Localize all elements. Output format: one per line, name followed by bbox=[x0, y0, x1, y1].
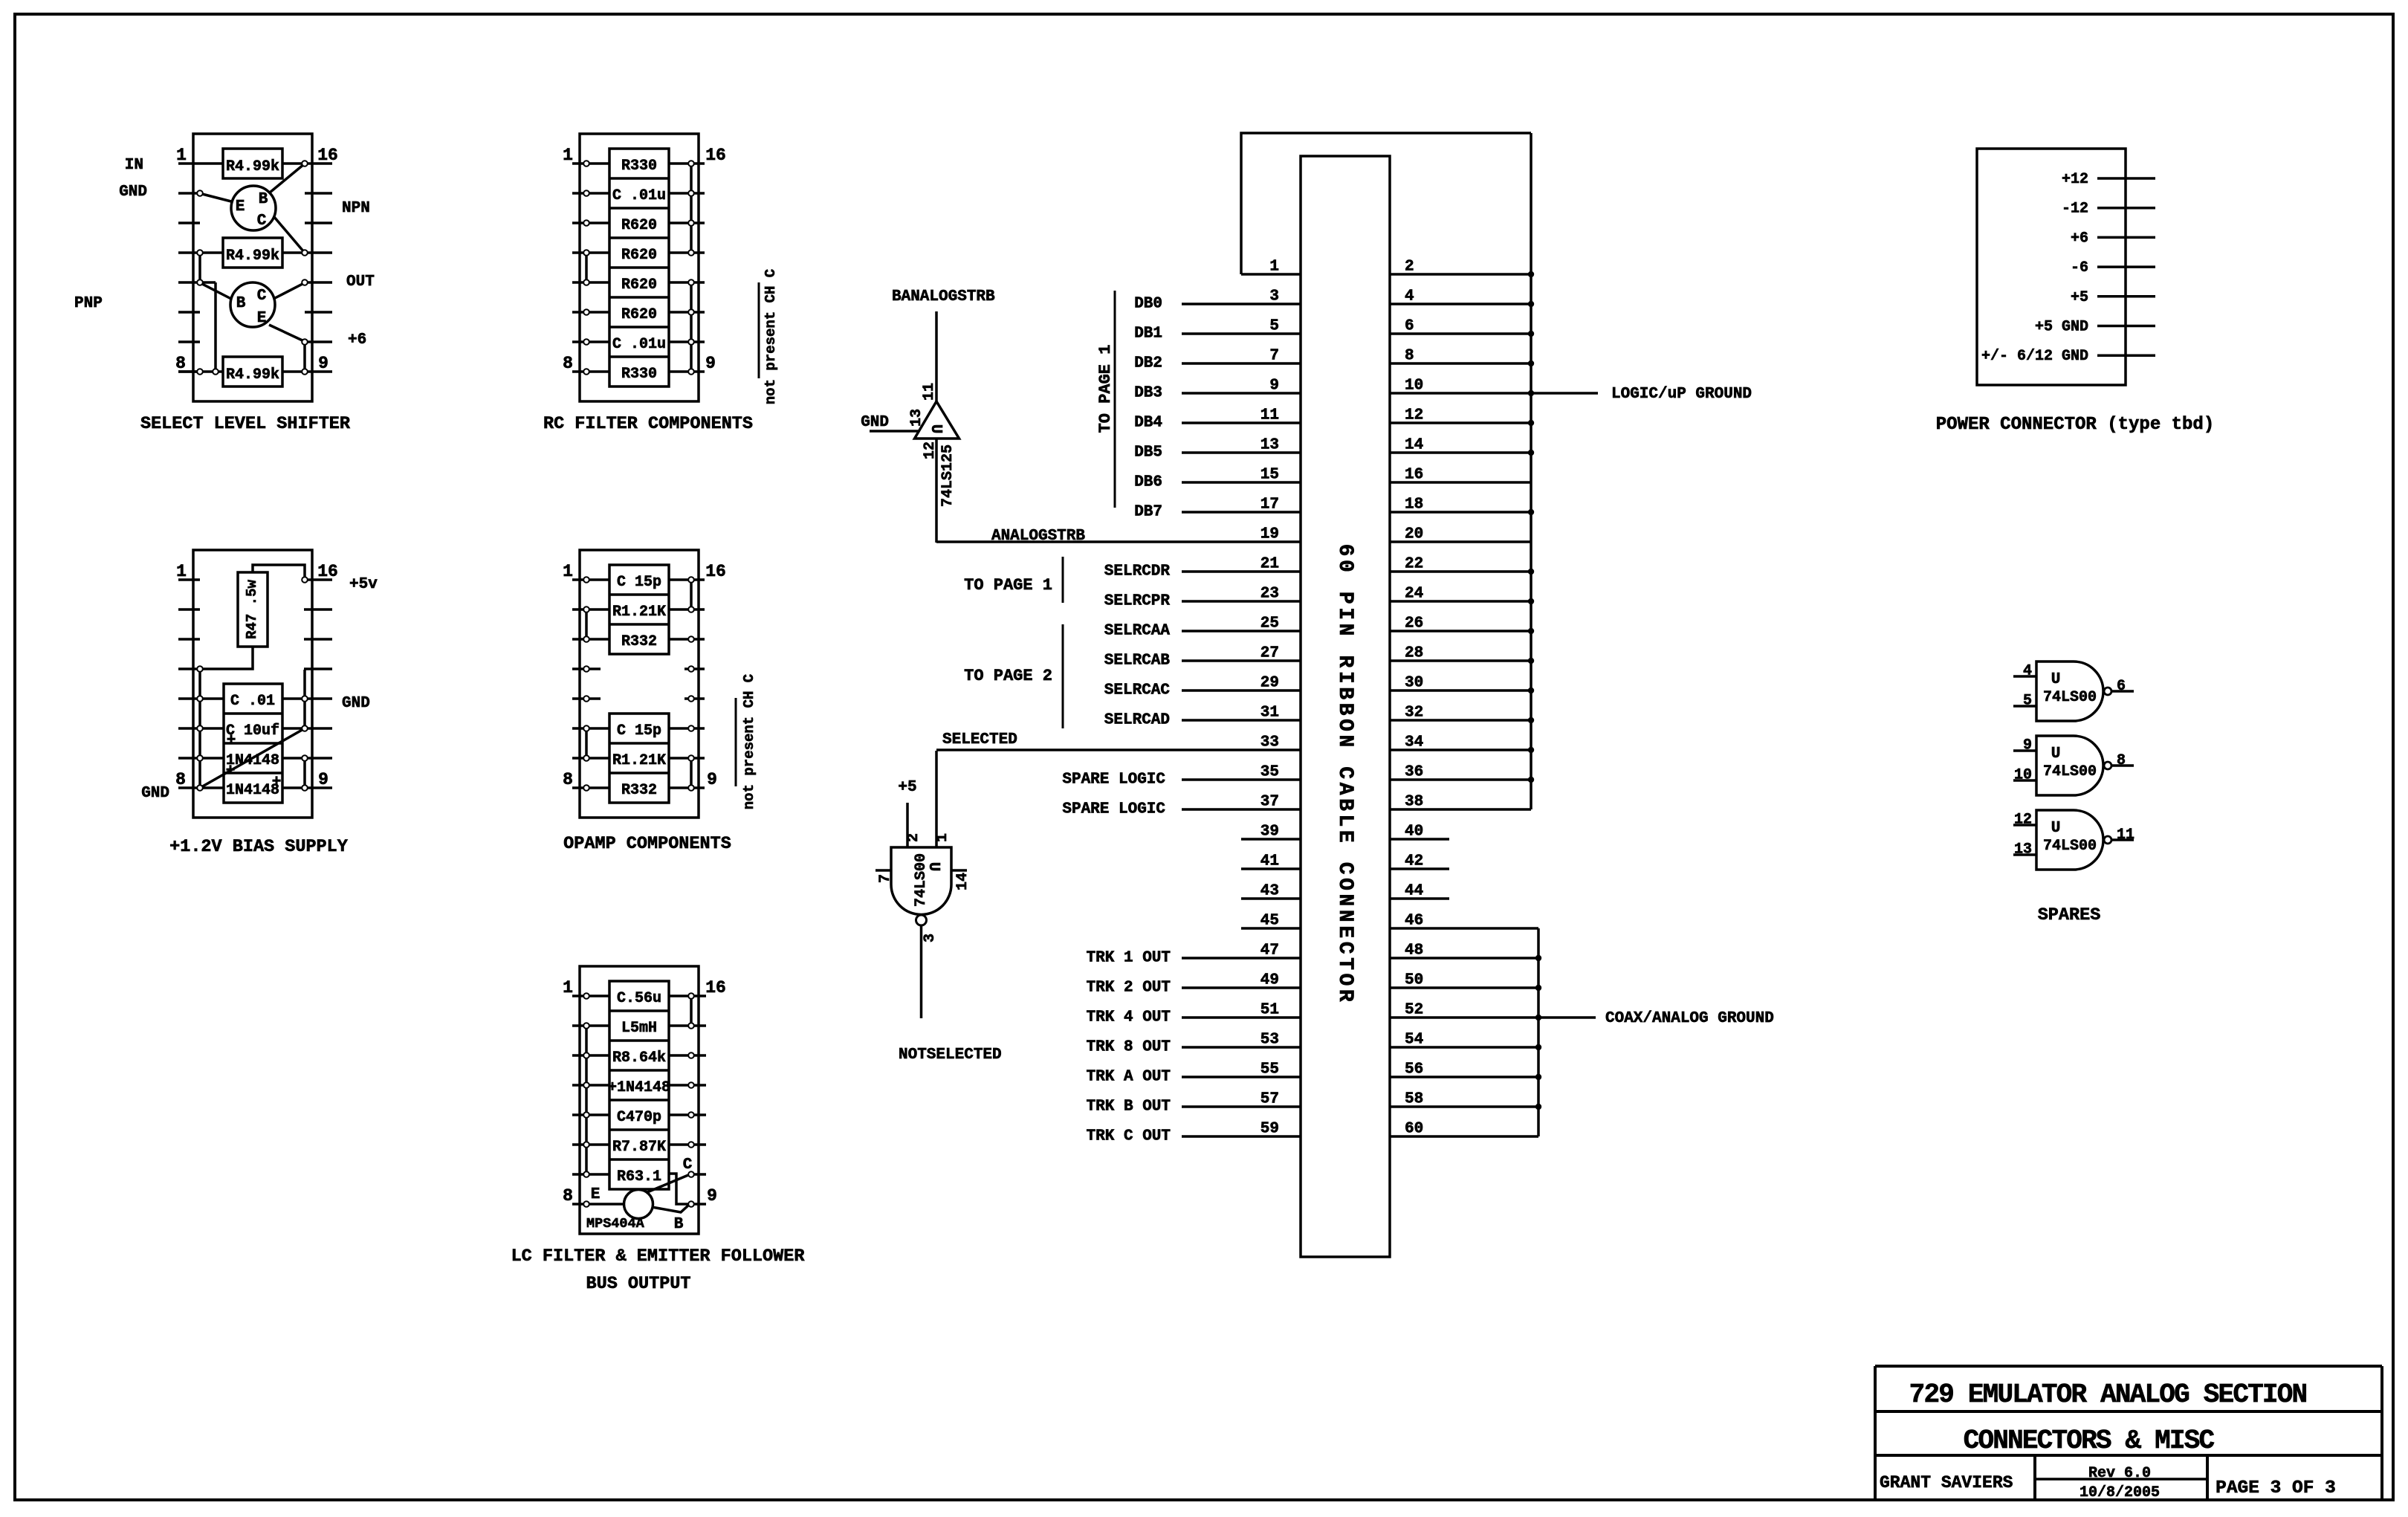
svg-text:U: U bbox=[2051, 745, 2061, 763]
svg-text:NPN: NPN bbox=[342, 200, 370, 217]
net DB3 row pin 9 bbox=[1134, 385, 1301, 402]
wire pin 41 row bbox=[1241, 867, 1301, 870]
svg-text:+: + bbox=[227, 732, 236, 749]
wire pin 24 row bbox=[1390, 600, 1531, 603]
svg-text:TO PAGE 1: TO PAGE 1 bbox=[1096, 345, 1115, 433]
svg-text:42: 42 bbox=[1405, 853, 1423, 870]
node terminals opamp right bbox=[688, 577, 694, 791]
pin 12 input bbox=[2013, 812, 2036, 829]
svg-text:B: B bbox=[674, 1216, 684, 1233]
svg-text:COAX/ANALOG GROUND: COAX/ANALOG GROUND bbox=[1605, 1010, 1774, 1027]
wire coax ground branch bbox=[1538, 1016, 1596, 1019]
svg-text:GND: GND bbox=[861, 414, 889, 431]
svg-text:R8.64k: R8.64k bbox=[612, 1049, 666, 1067]
svg-text:57: 57 bbox=[1260, 1091, 1279, 1108]
svg-text:51: 51 bbox=[1260, 1002, 1279, 1019]
note bar not-present rcfilter bbox=[758, 282, 760, 378]
svg-text:8: 8 bbox=[2117, 752, 2126, 769]
svg-text:R332: R332 bbox=[621, 633, 657, 650]
svg-text:L5mH: L5mH bbox=[621, 1020, 657, 1037]
svg-text:24: 24 bbox=[1405, 586, 1423, 603]
svg-text:1: 1 bbox=[563, 562, 573, 581]
svg-text:R330: R330 bbox=[621, 366, 657, 383]
wire right link rows1-2 bbox=[690, 580, 693, 609]
svg-text:+1.2V BIAS SUPPLY: +1.2V BIAS SUPPLY bbox=[169, 837, 349, 857]
svg-text:C .01u: C .01u bbox=[612, 187, 666, 204]
svg-text:18: 18 bbox=[1405, 496, 1423, 514]
wire right pin rows U-opamp bbox=[669, 580, 705, 788]
wire pin 6 row bbox=[1390, 332, 1531, 335]
svg-text:GND: GND bbox=[119, 184, 147, 201]
net +/- 6/12 GND pin bbox=[1981, 348, 2155, 365]
svg-text:1: 1 bbox=[563, 146, 573, 165]
svg-text:1: 1 bbox=[1269, 259, 1279, 276]
wire pin 44 stub bbox=[1390, 897, 1449, 900]
svg-text:59: 59 bbox=[1260, 1121, 1279, 1138]
svg-text:SELRCPR: SELRCPR bbox=[1104, 593, 1171, 610]
svg-text:CONNECTORS & MISC: CONNECTORS & MISC bbox=[1964, 1426, 2215, 1456]
wire R2 to pin13 bbox=[282, 251, 305, 254]
wire GND to Q-NPN emitter bbox=[202, 194, 231, 201]
svg-text:R620: R620 bbox=[621, 306, 657, 323]
wire corner down to row8 bbox=[214, 282, 217, 372]
wire node row4-row5 link bbox=[198, 253, 201, 282]
svg-text:54: 54 bbox=[1405, 1032, 1423, 1049]
svg-text:DB1: DB1 bbox=[1134, 326, 1162, 343]
bracket TO PAGE 2 bbox=[964, 624, 1063, 728]
svg-text:4: 4 bbox=[1405, 288, 1414, 305]
net LOGIC/uP GROUND bus bbox=[1530, 133, 1532, 809]
svg-text:BANALOGSTRB: BANALOGSTRB bbox=[892, 288, 995, 305]
svg-text:58: 58 bbox=[1405, 1091, 1423, 1108]
wire GND to U125 pin13 bbox=[870, 430, 919, 433]
resistor R4.99k (middle) bbox=[223, 238, 282, 268]
svg-text:TRK 1 OUT: TRK 1 OUT bbox=[1087, 950, 1171, 967]
wire pin 52 row bbox=[1390, 1016, 1538, 1019]
svg-text:U: U bbox=[927, 424, 944, 434]
svg-text:13: 13 bbox=[2014, 841, 2032, 858]
svg-text:-6: -6 bbox=[2071, 259, 2088, 276]
svg-text:1: 1 bbox=[176, 562, 187, 581]
svg-text:49: 49 bbox=[1260, 972, 1279, 989]
nand gate U-spare-c bbox=[2036, 810, 2103, 870]
wire pin 10 row bbox=[1390, 392, 1531, 395]
wire pin 20 row bbox=[1390, 540, 1531, 543]
pin 11 output bbox=[2111, 827, 2134, 844]
svg-text:R620: R620 bbox=[621, 217, 657, 234]
svg-text:39: 39 bbox=[1260, 824, 1279, 841]
svg-text:11: 11 bbox=[2117, 827, 2134, 844]
svg-text:14: 14 bbox=[954, 873, 971, 890]
IC package U-select outline bbox=[193, 134, 312, 401]
wire Q-NPN collector to pin13 bbox=[274, 217, 304, 252]
wire right link rows1-4 bbox=[690, 164, 693, 253]
svg-text:R620: R620 bbox=[621, 247, 657, 264]
inverter bubble U-spare-a bbox=[2104, 688, 2111, 695]
svg-text:13: 13 bbox=[1260, 437, 1279, 454]
nand gate U-spare-a bbox=[2036, 662, 2103, 721]
wire left pin stubs U-bias bbox=[178, 580, 200, 788]
svg-text:7: 7 bbox=[877, 874, 894, 883]
svg-text:4: 4 bbox=[2023, 663, 2032, 680]
junction dots logic ground bus bbox=[1528, 271, 1534, 783]
svg-text:R1.21K: R1.21K bbox=[612, 752, 666, 769]
wire row8 to R3 bbox=[178, 370, 223, 373]
svg-text:E: E bbox=[591, 1186, 601, 1203]
wire R47 bottom to row4 bbox=[200, 647, 253, 669]
svg-text:GND: GND bbox=[342, 695, 370, 712]
wire pin 28 row bbox=[1390, 659, 1531, 662]
svg-text:29: 29 bbox=[1260, 675, 1279, 692]
svg-text:DB2: DB2 bbox=[1134, 355, 1162, 372]
svg-text:+12: +12 bbox=[2062, 171, 2088, 188]
wire pin5 to Q-PNP base bbox=[202, 284, 231, 299]
svg-text:38: 38 bbox=[1405, 794, 1423, 811]
wire right link rows1-2 bbox=[690, 996, 693, 1026]
svg-text:19: 19 bbox=[1260, 526, 1279, 543]
svg-text:8: 8 bbox=[563, 354, 573, 373]
svg-text:74LS00: 74LS00 bbox=[2043, 763, 2097, 780]
wire pin 34 row bbox=[1390, 748, 1531, 751]
svg-text:12: 12 bbox=[2014, 812, 2032, 829]
wire left pin rows U-lcfilter bbox=[572, 996, 624, 1204]
svg-text:DB3: DB3 bbox=[1134, 385, 1162, 402]
wire left link rows2-7 bbox=[585, 1026, 588, 1174]
net SELRCAC row pin 29 bbox=[1104, 682, 1301, 699]
svg-text:7: 7 bbox=[1269, 348, 1279, 365]
net -12 pin bbox=[2062, 201, 2155, 218]
net DB0 row pin 3 bbox=[1134, 296, 1301, 313]
wire left pin rows U-opamp bbox=[572, 580, 609, 788]
svg-text:+5: +5 bbox=[2071, 289, 2088, 306]
svg-text:OPAMP COMPONENTS: OPAMP COMPONENTS bbox=[563, 834, 731, 854]
wire pin 36 row bbox=[1390, 778, 1531, 781]
svg-text:+6: +6 bbox=[348, 331, 366, 349]
wire stack rows right bbox=[282, 699, 305, 788]
svg-text:41: 41 bbox=[1260, 853, 1279, 870]
svg-text:C .01: C .01 bbox=[230, 693, 275, 710]
svg-text:16: 16 bbox=[705, 978, 726, 997]
wire pin 32 row bbox=[1390, 719, 1531, 722]
svg-text:10: 10 bbox=[2014, 767, 2032, 784]
wire SELECTED to U00 pin1 bbox=[935, 751, 938, 847]
svg-text:SPARE LOGIC: SPARE LOGIC bbox=[1062, 801, 1165, 818]
inverter bubble U00 bbox=[916, 915, 927, 925]
wire pin 42 stub bbox=[1390, 867, 1449, 870]
wire Q base diagonal bbox=[652, 1205, 689, 1212]
svg-text:PNP: PNP bbox=[74, 295, 103, 312]
wire pin 1 row bbox=[1241, 273, 1301, 276]
net SELRCDR row pin 21 bbox=[1104, 563, 1301, 580]
svg-text:+5 GND: +5 GND bbox=[2035, 319, 2088, 336]
wire Q collector diagonal bbox=[647, 1175, 688, 1192]
svg-text:SELRCAB: SELRCAB bbox=[1104, 653, 1171, 670]
capacitor/diode stack box bbox=[224, 684, 282, 803]
wire U00 output down bbox=[920, 925, 923, 1018]
pin 7 stub bbox=[876, 870, 894, 883]
svg-text:C: C bbox=[257, 213, 267, 230]
svg-text:R63.1: R63.1 bbox=[617, 1168, 661, 1186]
svg-text:56: 56 bbox=[1405, 1061, 1423, 1078]
wire pin 45 row bbox=[1241, 927, 1301, 930]
net +5 pin bbox=[2071, 289, 2155, 306]
net TRK 4 OUT row pin 51 bbox=[1087, 1009, 1301, 1026]
node terminals U-bias right bbox=[302, 577, 308, 791]
svg-text:E: E bbox=[236, 198, 245, 216]
connector J1 spine bbox=[1301, 156, 1390, 1257]
svg-text:10/8/2005: 10/8/2005 bbox=[2080, 1484, 2160, 1501]
svg-text:5: 5 bbox=[2023, 693, 2032, 710]
svg-text:9: 9 bbox=[707, 1186, 717, 1206]
wire right pin stubs U-bias bbox=[304, 580, 332, 788]
net COAX/ANALOG GROUND bus bbox=[1537, 928, 1540, 1136]
pin 10 input bbox=[2013, 767, 2036, 784]
svg-text:16: 16 bbox=[1405, 467, 1423, 484]
svg-text:5: 5 bbox=[1269, 318, 1279, 335]
svg-text:23: 23 bbox=[1260, 586, 1279, 603]
svg-text:not present CH C: not present CH C bbox=[763, 269, 779, 404]
inverter bubble U-spare-c bbox=[2104, 836, 2111, 844]
svg-text:C470p: C470p bbox=[617, 1109, 661, 1126]
svg-text:PAGE 3 OF 3: PAGE 3 OF 3 bbox=[2216, 1478, 2336, 1498]
wire left bus row4-row8 bbox=[198, 669, 201, 788]
wire pin 48 row bbox=[1390, 957, 1538, 960]
svg-text:SELRCAC: SELRCAC bbox=[1104, 682, 1171, 699]
wire right pin rows U-rcfilter bbox=[669, 164, 705, 372]
svg-text:60: 60 bbox=[1405, 1121, 1423, 1138]
svg-text:47: 47 bbox=[1260, 942, 1279, 960]
resistor R4.99k (bottom) bbox=[223, 357, 282, 386]
wire pin 26 row bbox=[1390, 630, 1531, 633]
svg-text:SPARE LOGIC: SPARE LOGIC bbox=[1062, 772, 1165, 789]
svg-text:34: 34 bbox=[1405, 734, 1423, 751]
svg-text:16: 16 bbox=[705, 146, 726, 165]
svg-text:C: C bbox=[257, 288, 267, 305]
wire +6 pin down to pin9 bbox=[303, 342, 306, 372]
net SELECTED row bbox=[936, 731, 1301, 750]
wire pin 4 row bbox=[1390, 303, 1531, 305]
net TRK 8 OUT row pin 53 bbox=[1087, 1039, 1301, 1056]
svg-text:17: 17 bbox=[1260, 496, 1279, 514]
svg-text:ANALOGSTRB: ANALOGSTRB bbox=[991, 528, 1085, 545]
junction dots coax ground bus bbox=[1535, 955, 1541, 1110]
wire pin 40 stub bbox=[1390, 838, 1449, 841]
svg-text:SELECTED: SELECTED bbox=[942, 731, 1017, 748]
svg-text:R7.87K: R7.87K bbox=[612, 1139, 666, 1156]
svg-text:14: 14 bbox=[1405, 437, 1423, 454]
svg-text:SELRCDR: SELRCDR bbox=[1104, 563, 1171, 580]
svg-text:+6: +6 bbox=[2071, 230, 2088, 247]
inverter bubble U-spare-b bbox=[2104, 762, 2111, 769]
net DB7 row pin 17 bbox=[1134, 504, 1301, 521]
wire pin 22 row bbox=[1390, 570, 1531, 573]
svg-text:8: 8 bbox=[563, 770, 573, 789]
nand gate U-spare-b bbox=[2036, 736, 2103, 795]
net TRK 2 OUT row pin 49 bbox=[1087, 980, 1301, 997]
svg-text:E: E bbox=[257, 310, 267, 327]
connector J1 top outline bbox=[1241, 133, 1531, 274]
svg-text:SELECT LEVEL SHIFTER: SELECT LEVEL SHIFTER bbox=[140, 414, 351, 434]
svg-text:LC FILTER & EMITTER FOLLOWER: LC FILTER & EMITTER FOLLOWER bbox=[511, 1246, 806, 1267]
svg-text:TO PAGE 2: TO PAGE 2 bbox=[964, 667, 1052, 685]
node terminals rcfilter left bbox=[583, 161, 589, 375]
svg-text:74LS00: 74LS00 bbox=[2043, 838, 2097, 855]
svg-text:20: 20 bbox=[1405, 526, 1423, 543]
net +5 GND pin bbox=[2035, 319, 2155, 336]
wire R63.1 to pin9 path bbox=[669, 1174, 689, 1204]
svg-text:9: 9 bbox=[705, 354, 716, 373]
wire row1 to R1 bbox=[200, 162, 223, 165]
svg-text:+1N4148: +1N4148 bbox=[608, 1079, 670, 1096]
svg-text:21: 21 bbox=[1260, 556, 1279, 573]
svg-text:TO PAGE 1: TO PAGE 1 bbox=[964, 576, 1052, 595]
net SPARE LOGIC row pin 35 bbox=[1062, 772, 1301, 789]
svg-text:C.56u: C.56u bbox=[617, 990, 661, 1007]
wire right pin stubs U-select bbox=[305, 164, 332, 372]
svg-text:6: 6 bbox=[1405, 318, 1414, 335]
svg-text:3: 3 bbox=[1269, 288, 1279, 305]
svg-text:BUS OUTPUT: BUS OUTPUT bbox=[586, 1274, 690, 1294]
bracket TO PAGE 1 (db bus) bbox=[1096, 291, 1115, 508]
IC package U-opamp outline bbox=[580, 550, 699, 818]
power connector outline bbox=[1977, 149, 2126, 385]
wire Q-PNP collector to OUT pin bbox=[275, 283, 304, 298]
wire right link row7-row8 bbox=[303, 758, 306, 788]
wire pin 38 row bbox=[1390, 808, 1531, 811]
svg-text:DB4: DB4 bbox=[1134, 415, 1162, 432]
svg-text:33: 33 bbox=[1260, 734, 1279, 751]
IC package U-lcfilter outline bbox=[580, 966, 699, 1234]
wire pin 8 row bbox=[1390, 362, 1531, 365]
svg-text:52: 52 bbox=[1405, 1002, 1423, 1019]
net TRK C OUT row pin 59 bbox=[1087, 1128, 1301, 1145]
svg-text:C .01u: C .01u bbox=[612, 336, 666, 353]
wire pin 58 row bbox=[1390, 1105, 1538, 1108]
net DB6 row pin 15 bbox=[1134, 474, 1301, 491]
svg-text:SELRCAA: SELRCAA bbox=[1104, 623, 1171, 640]
svg-text:8: 8 bbox=[1405, 348, 1414, 365]
node terminals rcfilter right bbox=[688, 161, 694, 375]
component stack box opamp top bbox=[609, 565, 669, 654]
wire pin 30 row bbox=[1390, 689, 1531, 692]
svg-text:GND: GND bbox=[141, 785, 169, 802]
svg-text:74LS125: 74LS125 bbox=[939, 444, 957, 507]
svg-text:TRK A OUT: TRK A OUT bbox=[1087, 1069, 1171, 1086]
wire right link rows7-8 bbox=[690, 758, 693, 788]
node terminals U-bias left bbox=[197, 666, 203, 791]
svg-text:SPARES: SPARES bbox=[2038, 905, 2101, 925]
wire R1 to pin16 bbox=[282, 162, 305, 165]
svg-text:2: 2 bbox=[905, 833, 922, 842]
svg-text:LOGIC/uP GROUND: LOGIC/uP GROUND bbox=[1611, 386, 1752, 403]
svg-text:+5: +5 bbox=[898, 779, 916, 796]
component stack box rcfilter bbox=[609, 149, 669, 386]
svg-text:Rev 6.0: Rev 6.0 bbox=[2088, 1465, 2151, 1482]
net +12 pin bbox=[2062, 171, 2155, 188]
note bar not-present opamp bbox=[735, 698, 737, 786]
wire U125 output down bbox=[935, 439, 938, 543]
wire row4 left to R2 bbox=[200, 251, 223, 254]
resistor R4.99k (top) bbox=[223, 149, 282, 178]
svg-text:TRK B OUT: TRK B OUT bbox=[1087, 1099, 1171, 1116]
svg-text:-12: -12 bbox=[2062, 201, 2088, 218]
svg-text:POWER CONNECTOR (type tbd): POWER CONNECTOR (type tbd) bbox=[1936, 415, 2214, 435]
transistor Q-MPS404A bbox=[624, 1190, 653, 1219]
wire Q-PNP emitter to +6 pin bbox=[269, 325, 304, 341]
svg-text:1: 1 bbox=[176, 146, 187, 165]
svg-text:43: 43 bbox=[1260, 883, 1279, 900]
svg-text:not present CH C: not present CH C bbox=[741, 674, 757, 809]
svg-text:16: 16 bbox=[317, 146, 338, 165]
wire pin 46 row bbox=[1390, 927, 1538, 930]
svg-text:55: 55 bbox=[1260, 1061, 1279, 1078]
svg-text:B: B bbox=[236, 295, 246, 312]
wire right pin rows U-lcfilter bbox=[669, 996, 706, 1204]
svg-text:22: 22 bbox=[1405, 556, 1423, 573]
svg-text:9: 9 bbox=[318, 354, 328, 373]
svg-text:C 15p: C 15p bbox=[617, 574, 661, 591]
svg-text:R4.99k: R4.99k bbox=[226, 158, 279, 175]
node terminals lcfilter left bbox=[583, 993, 589, 1207]
wire pin 14 row bbox=[1390, 451, 1531, 454]
wire R3 to pin9 bbox=[282, 370, 305, 373]
net -6 pin bbox=[2071, 259, 2155, 276]
svg-text:26: 26 bbox=[1405, 615, 1423, 633]
node terminals lcfilter right bbox=[688, 993, 694, 1207]
wire right link row5-row6 bbox=[303, 699, 306, 728]
net TRK B OUT row pin 57 bbox=[1087, 1099, 1301, 1116]
svg-text:46: 46 bbox=[1405, 913, 1423, 930]
wire diagonal diode tap bbox=[200, 728, 305, 788]
svg-text:8: 8 bbox=[175, 770, 186, 789]
component stack box lcfilter bbox=[609, 981, 669, 1189]
pin 6 output bbox=[2111, 678, 2134, 695]
IC package U-rcfilter outline bbox=[580, 134, 699, 401]
svg-text:DB5: DB5 bbox=[1134, 444, 1162, 462]
svg-text:MPS404A: MPS404A bbox=[586, 1216, 645, 1232]
net DB2 row pin 7 bbox=[1134, 355, 1301, 372]
node terminals U-select right bbox=[302, 161, 308, 375]
svg-text:15: 15 bbox=[1260, 467, 1279, 484]
svg-text:R47 .5w: R47 .5w bbox=[244, 580, 260, 639]
wire BANALOGSTRB down to U125 bbox=[935, 311, 938, 402]
net SELRCPR row pin 23 bbox=[1104, 593, 1301, 610]
svg-text:R332: R332 bbox=[621, 782, 657, 799]
svg-text:U: U bbox=[2051, 820, 2061, 837]
svg-text:9: 9 bbox=[318, 770, 328, 789]
svg-text:NOTSELECTED: NOTSELECTED bbox=[899, 1047, 1002, 1064]
svg-text:TRK 4 OUT: TRK 4 OUT bbox=[1087, 1009, 1171, 1026]
svg-text:1: 1 bbox=[934, 833, 951, 842]
svg-text:TRK 2 OUT: TRK 2 OUT bbox=[1087, 980, 1171, 997]
svg-text:R620: R620 bbox=[621, 276, 657, 294]
pin 5 input bbox=[2013, 693, 2036, 710]
svg-text:729 EMULATOR ANALOG SECTION: 729 EMULATOR ANALOG SECTION bbox=[1909, 1379, 2307, 1410]
wire pin 18 row bbox=[1390, 511, 1531, 514]
resistor R47 .5w bbox=[238, 572, 268, 647]
svg-text:16: 16 bbox=[705, 562, 726, 581]
svg-text:+5v: +5v bbox=[349, 576, 378, 593]
svg-text:74LS00: 74LS00 bbox=[913, 853, 930, 907]
wire Q-NPN base to pin16 bbox=[270, 164, 304, 193]
pin 9 input bbox=[2013, 737, 2036, 754]
wire pin 60 row bbox=[1390, 1135, 1538, 1138]
wire pin 2 row bbox=[1390, 273, 1531, 276]
svg-text:DB0: DB0 bbox=[1134, 296, 1162, 313]
svg-text:IN: IN bbox=[125, 157, 143, 174]
wire left link rows2-3 bbox=[585, 609, 588, 639]
wire row5 to corner bbox=[200, 281, 216, 284]
